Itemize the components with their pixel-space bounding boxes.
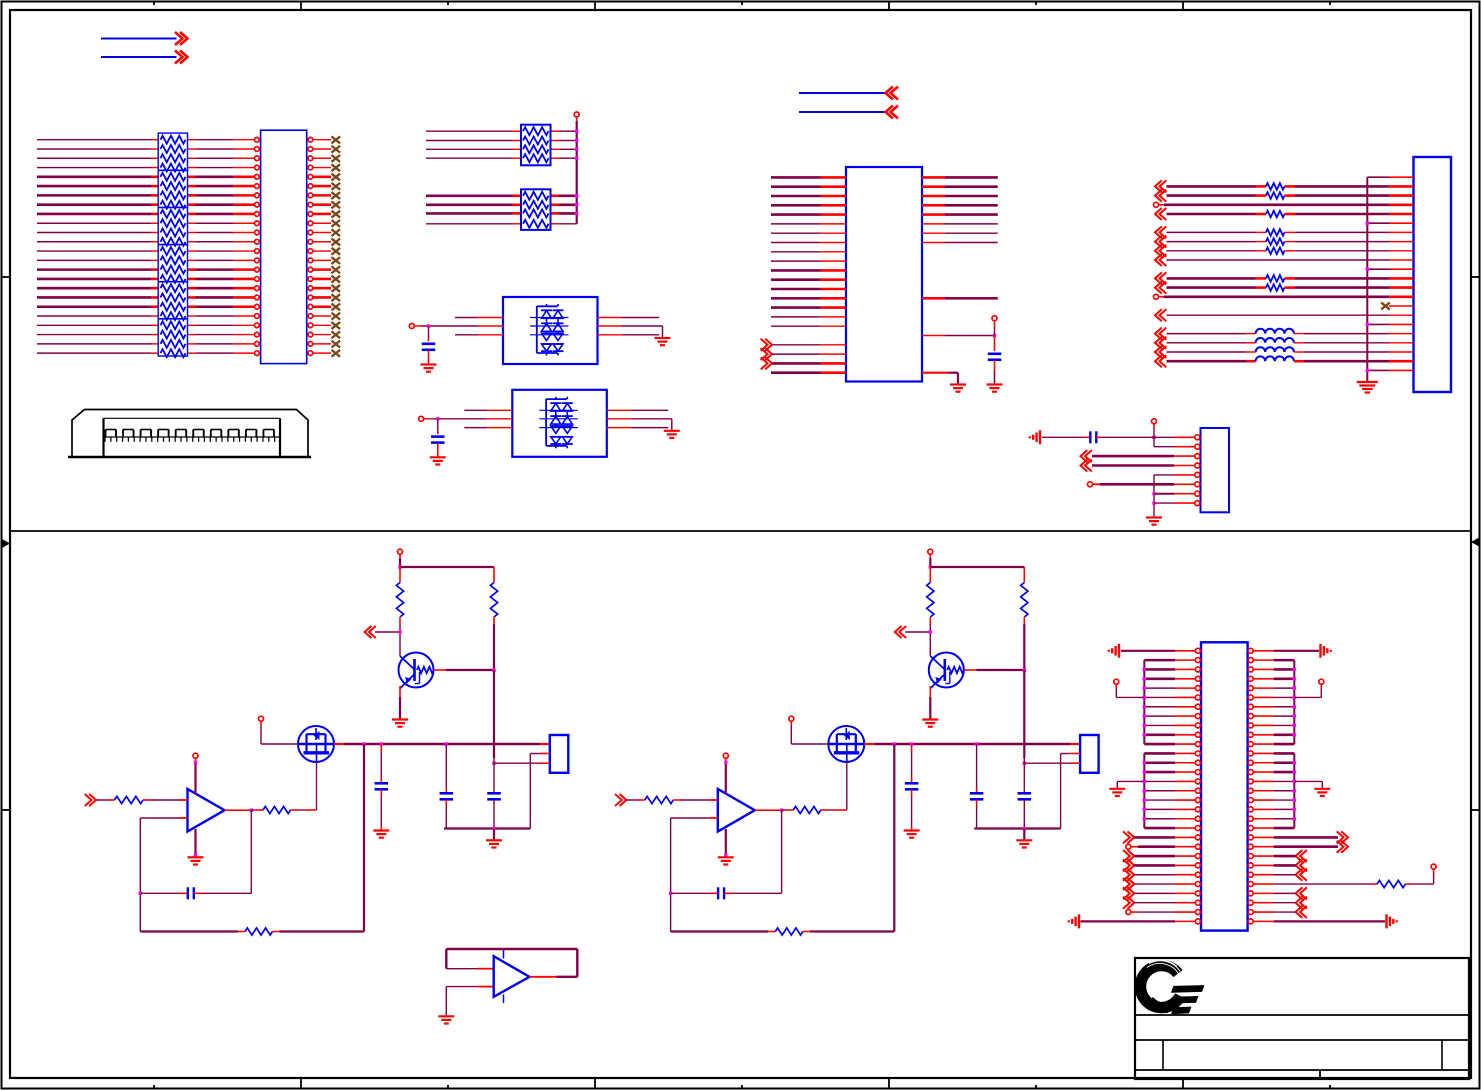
connector KA box — [550, 735, 569, 773]
gate resistor RB4 — [782, 809, 786, 811]
J3 pin6 power — [1088, 482, 1093, 487]
resistor RB1 — [929, 567, 931, 583]
J2 group2 row2 — [1155, 236, 1162, 248]
J2 ind row3 — [1155, 346, 1162, 358]
no-connect X marks on U1 outputs — [332, 136, 341, 143]
cap CAb — [445, 744, 447, 788]
J2 single row — [1155, 309, 1162, 321]
QA1 base resistor output — [434, 669, 447, 671]
J2 group3 row3 — [1154, 294, 1159, 299]
op-amp UB — [718, 789, 755, 832]
cap CBc — [1023, 670, 1025, 758]
RP8 input wires — [426, 195, 513, 198]
resistor RA1 — [399, 567, 401, 583]
feedback resistor RA5 — [140, 930, 238, 932]
title block — [1135, 958, 1469, 1079]
input resistor RA3 — [89, 794, 96, 806]
resistor RA2 — [493, 567, 495, 583]
UB power pin — [723, 753, 728, 758]
IC U1 pins — [255, 137, 260, 142]
J2 group2 row4 — [1155, 254, 1162, 266]
J3 pin1/2 net with cap C4 and antenna feed — [1152, 436, 1155, 439]
MB1 gate wire — [846, 762, 848, 810]
connector KA pin3 — [494, 762, 540, 764]
sheet section divider — [10, 530, 1471, 532]
J4 right off-page pins — [1274, 836, 1338, 839]
connector KA pin2 — [530, 753, 540, 755]
UA output — [225, 809, 252, 811]
UB ground — [725, 829, 727, 855]
J2 group2 row1 — [1155, 226, 1162, 238]
connector J2 pins — [1389, 176, 1414, 178]
MA1 gate wire — [316, 762, 318, 810]
J2 ind row2 — [1155, 337, 1162, 349]
MB1 source power — [789, 716, 794, 721]
feedback cap CAf — [250, 810, 252, 893]
UA power pin — [193, 753, 198, 758]
cap CAc — [493, 670, 495, 758]
ESD diode array U3 with cap C2 — [512, 390, 607, 457]
J2 group1 row1 — [1155, 180, 1162, 192]
feedback resistor RB5 — [671, 930, 769, 932]
connector J1 mechanical drawing — [72, 410, 308, 458]
cap return lineA — [444, 827, 530, 829]
QA1 emitter ground — [399, 686, 401, 697]
J2 group2 row3 — [1155, 245, 1162, 257]
net arrow B2 — [799, 111, 886, 113]
connector KB pin3 — [1024, 762, 1070, 764]
UA inverting input wire — [140, 817, 178, 819]
UB output — [755, 809, 782, 811]
buffer op-amp U5 — [446, 948, 577, 950]
pull-up bus with power pin — [574, 112, 579, 117]
J2 ground bus — [1366, 177, 1368, 381]
connector J2 box — [1414, 157, 1452, 392]
IC U4 box — [846, 167, 922, 382]
transistor QA1 — [399, 653, 434, 688]
J4 right bus group1 — [1293, 660, 1295, 744]
J4 left pin30 chassis — [1081, 920, 1176, 922]
J2 group1 row2 — [1155, 190, 1162, 202]
IC U4 ground pin — [922, 372, 948, 374]
J2 no-connect pin — [1381, 303, 1390, 310]
net arrow baseA — [365, 626, 372, 638]
J2 group3 row1 — [1155, 272, 1162, 284]
resistor pack RP8 — [521, 189, 551, 230]
J4 left bus group2 — [1143, 753, 1145, 828]
right edge center arrow — [1471, 538, 1479, 547]
QB1 emitter ground — [929, 686, 931, 697]
J3 pins 3-4 off-page — [1081, 450, 1088, 462]
connector J3 box — [1201, 428, 1230, 512]
IC U4 left pins — [771, 176, 821, 179]
resistor packs RP1-RP6 — [158, 133, 187, 170]
J4 left bus group1 — [1143, 660, 1145, 744]
drain node wireA — [344, 743, 540, 746]
resistor RB2 — [1023, 567, 1025, 583]
ESD diode array U2 with cap C1 — [503, 297, 598, 364]
cap return lineB — [974, 827, 1060, 829]
net arrow baseB — [895, 626, 902, 638]
connector J3 pins — [1195, 435, 1200, 440]
J4 right pin30 chassis — [1274, 920, 1385, 922]
J3 ground net — [1154, 474, 1174, 476]
UA ground — [194, 829, 196, 855]
IC U1 box — [261, 130, 307, 363]
input resistor RB3 — [620, 794, 627, 806]
net arrow B1 — [799, 92, 886, 94]
border zone ticks — [300, 2, 302, 11]
J4 right pull resistor to power — [1274, 883, 1371, 885]
MOSFET MB1 — [828, 726, 864, 762]
net arrow A2 — [101, 56, 177, 58]
J4 left off-page pins — [1128, 831, 1135, 843]
J2 group3 row2 — [1155, 282, 1162, 294]
J2 group1 row3 — [1154, 202, 1159, 207]
UB inverting input wire — [671, 817, 709, 819]
op-amp UA — [188, 789, 225, 832]
feedback cap CBf — [781, 810, 783, 893]
connector J4 box — [1201, 642, 1248, 930]
J2 ind row4 — [1155, 355, 1162, 367]
IC U4 pin to cap C3 and ground — [922, 335, 945, 337]
J2 ind row1 — [1155, 328, 1162, 340]
J4 left pin1 chassis — [1121, 650, 1175, 652]
wire bundle left of RP1-RP6 — [37, 139, 151, 141]
connector KB box — [1080, 735, 1099, 773]
transistor QB1 — [929, 653, 964, 688]
power pin PAa — [398, 549, 403, 554]
IC U4 right pins upper — [922, 176, 945, 179]
power pin PBa — [928, 549, 933, 554]
cap CAa — [380, 744, 382, 752]
drain node wireB — [874, 743, 1070, 746]
J4 right pin1 chassis — [1274, 650, 1319, 652]
MA1 source power — [259, 716, 264, 721]
cap CBa — [911, 744, 913, 752]
resistor pack RP7 — [521, 125, 551, 166]
company logo — [1140, 966, 1180, 1008]
left edge center arrow — [2, 539, 10, 548]
J4 right bus group2 — [1293, 753, 1295, 828]
net arrow A1 — [101, 38, 177, 40]
J2 group1 row4 — [1155, 208, 1162, 220]
cap CBb — [976, 744, 978, 788]
connector KB pin2 — [1061, 753, 1071, 755]
MOSFET MA1 — [298, 726, 334, 762]
connector J4 pin circles — [1195, 648, 1200, 653]
RP7 input wires — [426, 130, 513, 132]
QB1 base resistor output — [964, 669, 977, 671]
gate resistor RA4 — [251, 809, 255, 811]
